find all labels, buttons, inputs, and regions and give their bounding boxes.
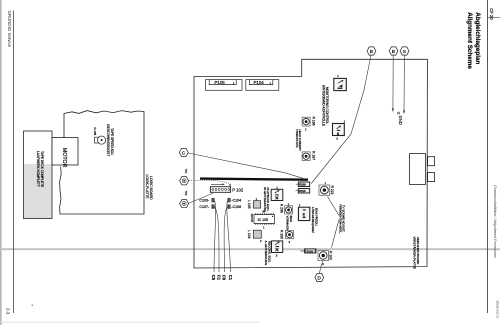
svg-text:8: 8 [337,132,339,136]
shield bar (thick) [200,179,308,180]
right edge connector [410,154,435,185]
capacitor C107 [199,204,214,209]
resistor R109 [296,182,310,187]
svg-text:BIAS: BIAS [289,216,293,223]
wire from C107 down across board edge [215,207,219,272]
measuring point hexagon B1 [367,47,376,55]
svg-text:R 296: R 296 [280,204,284,213]
hexagon C (left callout) [179,148,188,156]
svg-text:S: S [403,49,406,55]
wire from C108 down across board edge [224,207,227,272]
svg-text:VERSTÄRKER-PLATTE: VERSTÄRKER-PLATTE [412,237,416,269]
coil L105 [247,197,261,209]
svg-text:R 105: R 105 [93,128,97,136]
pot R296 [280,202,293,231]
svg-text:L 104: L 104 [247,230,251,238]
svg-text:MONITORING CONTROL: MONITORING CONTROL [325,87,329,124]
svg-text:Abgleichlageplan: Abgleichlageplan [474,12,481,64]
svg-text:RECORD. EQU.: RECORD. EQU. [268,241,272,263]
svg-text:R 186: R 186 [311,117,315,126]
svg-text:C1: C1 [216,275,221,281]
pointer line from B to R109 [311,55,371,183]
svg-text:R 222: R 222 [330,186,334,195]
tape deck block (tall rect) [24,164,52,218]
potentiometer R187 [302,151,315,161]
svg-text:1R-P15: 1R-P15 [250,214,253,223]
svg-text:BIAS FREQU.: BIAS FREQU. [315,208,319,227]
svg-text:MOTOR: MOTOR [61,148,67,168]
PCB outline [194,59,427,268]
svg-text:GESCHWINDIGKEIT: GESCHWINDIGKEIT [106,124,110,156]
svg-text:CF 20: CF 20 [489,8,494,20]
potentiometer R186 [302,117,315,132]
svg-text:C103-: C103- [199,199,210,203]
line from C to shield bar [188,153,303,178]
svg-text:-C108: -C108 [231,205,241,209]
svg-text:TV SOUND ADJUST.: TV SOUND ADJUST. [342,205,346,232]
svg-text:2-3: 2-3 [5,308,10,315]
svg-text:Alignment Scheme: Alignment Scheme [466,12,473,69]
capacitor C103 [199,198,214,203]
speck on scan [32,305,33,306]
pot R100 [318,251,333,266]
hexagon D bottom [315,273,324,281]
svg-text:AMPLIFIER BOARD: AMPLIFIER BOARD [416,237,420,265]
svg-text:GND: GND [398,116,403,125]
connector P105 [206,80,243,91]
svg-text:Chassisschaltbilder / Adjustme: Chassisschaltbilder / Adjustment Procedu… [493,185,497,258]
svg-text:C107-: C107- [199,205,210,209]
connector P102 [210,183,243,192]
svg-text:IC 105: IC 105 [258,218,268,222]
svg-text:TAPE SPEED ADJ.: TAPE SPEED ADJ. [110,128,114,156]
svg-text:D: D [317,276,321,282]
R105 speed pot in deck [93,124,114,156]
svg-text:R 187: R 187 [311,151,315,160]
line TP2 to P102 [189,193,213,203]
motor box [52,138,78,166]
trimmer square right [333,120,346,141]
svg-text:R103: R103 [307,249,314,253]
wire from hexagon B2 to GND [392,55,394,111]
line pot R100 to hexagon D [320,261,324,273]
svg-text:39599-002.01: 39599-002.01 [496,300,500,319]
hexagon TP2 [180,191,189,208]
node GND [398,112,404,125]
capacitor C104 [228,198,242,203]
svg-text:P105: P105 [215,80,226,85]
deck outline with torn edges [60,111,144,214]
function label head current [295,129,302,151]
svg-text:LOGIC BOARD: LOGIC BOARD [149,176,153,200]
right frame rule [486,0,489,313]
svg-text:R 295: R 295 [280,230,284,239]
svg-text:W.-ENTZERRUNG: W.-ENTZERRUNG [263,187,267,213]
capacitor C108 [228,204,242,209]
svg-text:A.-ENTZERRUNG: A.-ENTZERRUNG [264,241,268,266]
svg-text:R 100: R 100 [329,251,333,260]
svg-text:P104: P104 [254,80,265,85]
connector P104 [246,80,279,91]
black coil record EQ [264,241,283,266]
measuring point hexagon S [400,47,409,55]
svg-text:C9: C9 [222,275,227,281]
measuring point hexagon B2 [389,47,398,55]
svg-text:R109: R109 [299,183,306,187]
faint bottom scan line [0,321,260,324]
svg-text:HINTERBAND-KONTROLLE: HINTERBAND-KONTROLLE [322,85,326,126]
coil L104 [247,230,262,243]
pot R222 [319,181,334,195]
svg-text:HEAD CURRENT: HEAD CURRENT [298,130,302,152]
svg-text:8: 8 [303,212,305,216]
svg-text:C5: C5 [211,275,216,281]
resistor R110 [296,189,310,194]
svg-text:-C104: -C104 [231,199,241,203]
svg-text:C: C [182,151,186,157]
svg-text:P 102: P 102 [232,188,244,193]
IC 105 [250,210,275,230]
wire from hexagon S to GND [403,55,405,113]
svg-text:TAPE DECK COMPLETE: TAPE DECK COMPLETE [40,151,44,187]
trimmer L103 [298,203,318,233]
left frame rule [12,11,15,314]
resistor R103 [301,249,317,254]
top-right short rule under CF 20 [487,16,500,19]
svg-text:TP1: TP1 [184,169,188,174]
scan fold line across page [0,248,500,250]
wire from C104 down across board edge [227,201,231,272]
scan left edge strip [0,0,2,325]
svg-text:B: B [370,49,373,55]
svg-text:LAUFWERK KOMPLETT: LAUFWERK KOMPLETT [36,151,40,187]
svg-text:GRUNDIG Service: GRUNDIG Service [7,11,12,48]
svg-text:R110: R110 [299,189,306,193]
svg-text:C1: C1 [228,275,233,281]
wire from C103 down across board edge [214,201,216,272]
pot R295 [280,230,294,244]
svg-text:LOGIK-PLATTE: LOGIK-PLATTE [145,175,149,200]
dashed line TP1 to P102 [189,180,229,183]
svg-text:L 105: L 105 [247,200,251,208]
TV sound callout [328,197,346,248]
hexagon TP1 [180,169,189,185]
black coil playback EQ [263,185,283,213]
svg-text:TP2: TP2 [184,191,188,196]
svg-text:B: B [392,49,395,55]
black coil top right [322,74,347,126]
svg-text:PLAYBACK EQU.: PLAYBACK EQU. [266,188,270,212]
